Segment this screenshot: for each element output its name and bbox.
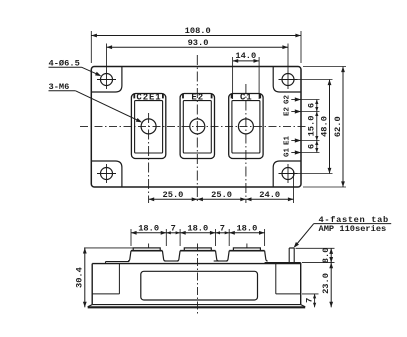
svg-text:7: 7 bbox=[171, 223, 176, 233]
case/baseplate seam bbox=[92, 304, 301, 306]
terminal block 2 top cap bbox=[184, 248, 211, 251]
dimension 25.0 (E2-C1) bbox=[197, 198, 246, 200]
svg-text:18.0: 18.0 bbox=[236, 223, 257, 233]
dimension 15.0 (E2-E1) bbox=[316, 112, 318, 141]
corner ledge left (side view) bbox=[92, 293, 119, 295]
dimension 30.4 bbox=[84, 248, 86, 307]
svg-text:18.0: 18.0 bbox=[187, 223, 208, 233]
corner ledge boundary top-right bbox=[273, 67, 301, 93]
dimension 25.0 (C2E1-E2) bbox=[149, 198, 198, 200]
svg-text:6: 6 bbox=[307, 144, 317, 149]
baseplate right chamfer bbox=[301, 305, 306, 307]
svg-text:8.0: 8.0 bbox=[321, 248, 331, 264]
extension lines for 48.0 bbox=[297, 79, 333, 81]
pin E2 arrow and extension bbox=[291, 111, 301, 113]
centerline through E2 bbox=[196, 55, 198, 203]
dimension 18.0 (block3) bbox=[229, 232, 264, 234]
dimension 7 (gap2) bbox=[216, 232, 230, 234]
side view vertical centerline bbox=[197, 244, 199, 315]
extension lines for 108.0 bbox=[90, 31, 92, 63]
extension line ledge right bbox=[302, 293, 319, 295]
dimension 48.0 bbox=[329, 80, 331, 174]
gap floor between blocks bbox=[165, 260, 179, 262]
dimension 18.0 (block2) bbox=[180, 232, 215, 234]
corner ledge boundary bottom-right bbox=[273, 161, 301, 187]
svg-text:25.0: 25.0 bbox=[163, 190, 184, 200]
extension lines 18-7-18-7-18 bbox=[130, 229, 132, 246]
center tick block1 bbox=[148, 244, 150, 249]
terminal block E2 inner recess bbox=[183, 101, 211, 153]
svg-text:G2: G2 bbox=[284, 95, 292, 105]
dimension 8.0 bbox=[330, 248, 332, 262]
svg-text:E2: E2 bbox=[284, 107, 292, 117]
terminal block 1 side profile bbox=[131, 250, 162, 252]
right lid edge bbox=[265, 262, 301, 264]
dimension 18.0 (block1) bbox=[131, 232, 166, 234]
svg-text:7: 7 bbox=[304, 298, 314, 303]
terminal block C2E1 inner recess bbox=[135, 101, 163, 153]
terminal block 3 top cap bbox=[233, 248, 260, 251]
terminal block E2 outer bbox=[180, 94, 214, 159]
dimension 93.0 bbox=[107, 46, 289, 48]
svg-text:24.0: 24.0 bbox=[259, 190, 280, 200]
baseplate bottom thick edge bbox=[88, 306, 306, 308]
mounting hole bottom-right with crosshair bbox=[282, 168, 294, 180]
extension line right of 24.0 bbox=[293, 171, 295, 203]
side view case left edge bbox=[91, 264, 93, 305]
leader to fasten tab bbox=[295, 224, 314, 247]
svg-text:18.0: 18.0 bbox=[138, 223, 159, 233]
terminal block 2 side profile bbox=[180, 250, 215, 252]
terminal block C1 inner recess bbox=[232, 101, 260, 153]
svg-text:108.0: 108.0 bbox=[185, 26, 211, 36]
leader to mounting hole bbox=[82, 67, 100, 75]
svg-text:62.0: 62.0 bbox=[333, 116, 343, 137]
terminal block C2E1 outer bbox=[131, 94, 165, 159]
extension lines for 93.0 bbox=[106, 44, 108, 71]
mounting hole bottom-left with crosshair bbox=[101, 168, 113, 180]
baseplate left chamfer bbox=[88, 305, 93, 307]
svg-text:30.4: 30.4 bbox=[74, 267, 84, 288]
centerline through C1 bbox=[245, 84, 247, 203]
terminal block 1 top cap bbox=[133, 248, 160, 251]
extension lines for 62.0 bbox=[303, 66, 346, 68]
module body outline (top view) bbox=[91, 67, 301, 188]
corner ledge boundary top-left bbox=[91, 67, 122, 93]
fasten tab bbox=[288, 248, 290, 263]
terminal E2 screw circle bbox=[190, 119, 205, 134]
dimension 6 (G2-E2) bbox=[316, 100, 318, 112]
extension line tab top bbox=[296, 247, 335, 249]
extension line top for 30.4 bbox=[84, 247, 134, 249]
svg-text:E1: E1 bbox=[284, 136, 292, 146]
gap floor between blocks bbox=[214, 260, 228, 262]
pin G1 arrow and extension bbox=[291, 152, 301, 154]
svg-text:15.0: 15.0 bbox=[307, 116, 317, 137]
left step on lid bbox=[106, 261, 130, 263]
svg-text:93.0: 93.0 bbox=[188, 38, 209, 48]
side view case top edge bbox=[92, 263, 301, 265]
svg-text:14.0: 14.0 bbox=[235, 51, 256, 61]
svg-text:AMP 110series: AMP 110series bbox=[319, 224, 387, 234]
dimension 62.0 bbox=[342, 67, 344, 188]
mounting hole top-left with crosshair bbox=[101, 74, 113, 86]
pin G2 arrow and extension bbox=[291, 99, 301, 101]
terminal block C1 outer bbox=[229, 94, 263, 159]
svg-text:48.0: 48.0 bbox=[319, 116, 329, 137]
label recess rectangle bbox=[141, 271, 258, 300]
centerline through C2E1 bbox=[148, 113, 150, 203]
dimension 23.0 bbox=[330, 263, 332, 308]
leader to M6 terminal bbox=[75, 91, 140, 122]
terminal C1 screw circle bbox=[238, 119, 253, 134]
dimension 24.0 (C1-edge) bbox=[246, 198, 294, 200]
horizontal centerline (top view) bbox=[80, 125, 308, 127]
svg-text:G1: G1 bbox=[284, 148, 292, 158]
mounting hole top-right with crosshair bbox=[282, 74, 294, 86]
svg-text:6: 6 bbox=[307, 103, 317, 108]
corner ledge boundary bottom-left bbox=[91, 161, 122, 187]
dimension 6 (E1-G1) bbox=[316, 141, 318, 153]
svg-text:25.0: 25.0 bbox=[211, 190, 232, 200]
side view case right edge bbox=[300, 263, 302, 305]
extension line body top right bbox=[302, 262, 335, 264]
terminal C2E1 screw circle bbox=[141, 119, 156, 134]
dimension 14.0 bbox=[233, 60, 260, 62]
extension lines for 14.0 bbox=[232, 57, 234, 99]
terminal block 3 side profile bbox=[229, 250, 264, 252]
dimension 7 (baseplate) bbox=[314, 294, 316, 307]
corner ledge right (side view) bbox=[276, 293, 301, 295]
svg-text:7: 7 bbox=[220, 223, 225, 233]
center tick block3 bbox=[246, 244, 248, 249]
dimension 7 (gap1) bbox=[166, 232, 180, 234]
pin E1 arrow and extension bbox=[291, 140, 301, 142]
dimension 108.0 bbox=[91, 35, 301, 37]
svg-text:C2E1: C2E1 bbox=[136, 92, 161, 102]
svg-text:23.0: 23.0 bbox=[321, 273, 331, 294]
